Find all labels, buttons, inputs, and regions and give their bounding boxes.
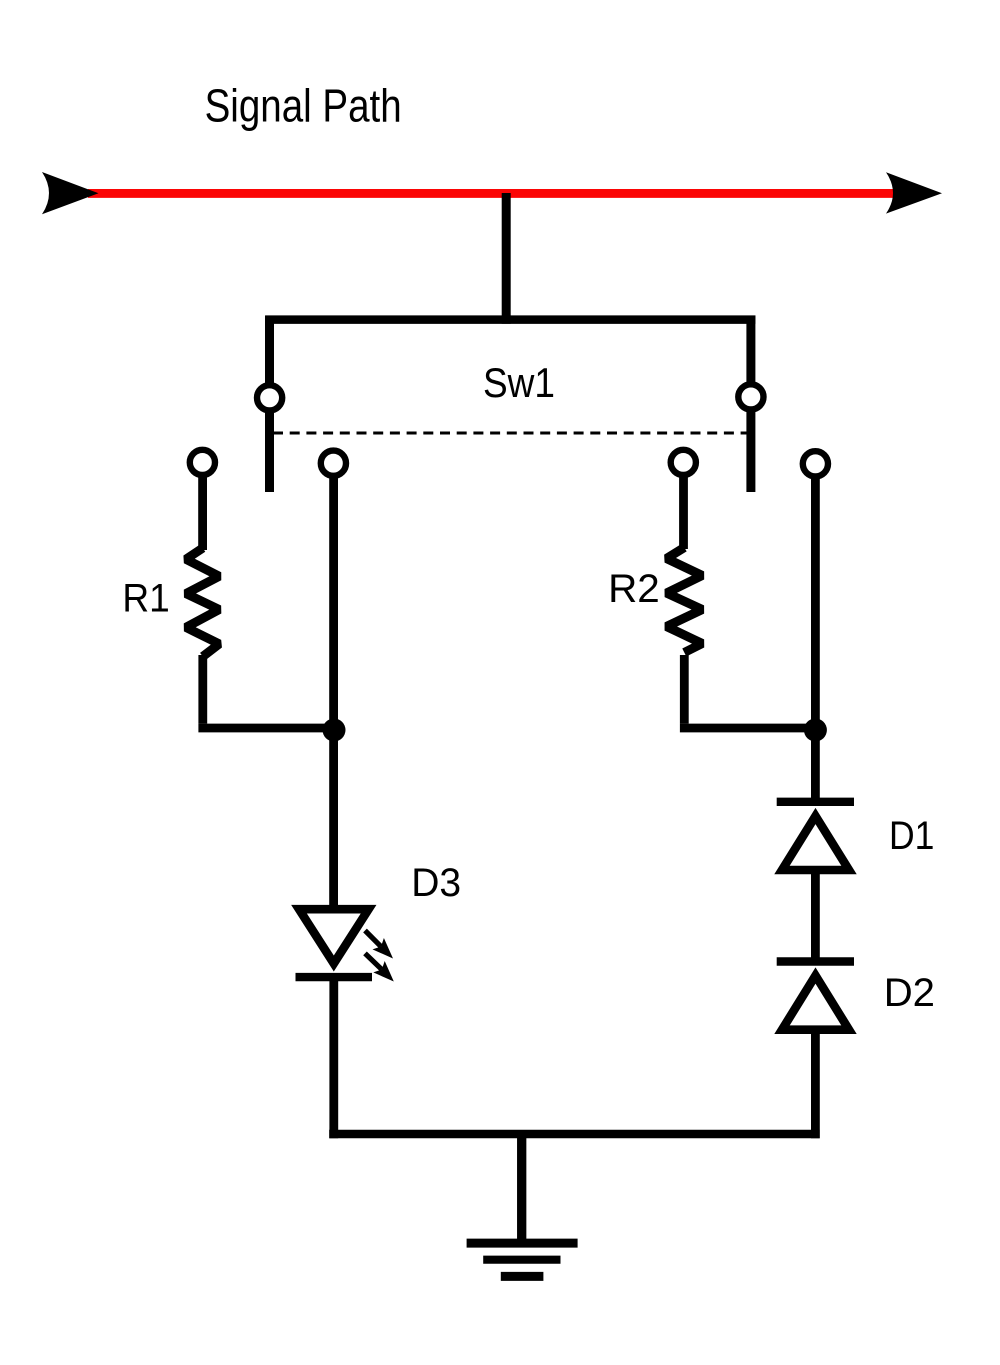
node A junction dot: [323, 719, 346, 742]
wire D2 bottom lead: [811, 1030, 820, 1139]
resistor R1: [186, 548, 219, 657]
svg-text:D2: D2: [884, 971, 935, 1015]
switch throw terminal circle right-inner: [803, 451, 828, 476]
wire left branch vertical (throw to LED): [329, 478, 338, 914]
switch right pole contact circle: [738, 384, 763, 409]
svg-text:Sw1: Sw1: [483, 360, 555, 407]
node left arrowhead: [42, 172, 99, 214]
wire R1 top lead: [198, 478, 207, 551]
LED D3 triangle: [299, 909, 369, 963]
diode D1 cathode bar: [777, 798, 854, 806]
node right arrowhead: [886, 172, 942, 213]
wire R2 bottom horizontal to node B: [680, 724, 816, 733]
ground: [467, 1243, 578, 1276]
switch Sw1 top bar: [265, 315, 755, 324]
switch right blade: [746, 412, 755, 492]
diode D2 cathode bar: [777, 957, 854, 965]
svg-text:D3: D3: [411, 860, 461, 905]
resistor R1 label: [122, 576, 169, 621]
wire LED D3 bottom lead: [329, 977, 338, 1138]
diode D1 triangle: [782, 816, 849, 870]
wire R2 bottom lead: [680, 655, 689, 724]
wire R2 top lead: [679, 478, 688, 550]
LED D3 label: [411, 860, 461, 905]
wire R1 bottom lead: [198, 655, 207, 724]
switch left blade: [265, 413, 274, 493]
diode D2 triangle: [782, 976, 849, 1030]
svg-text:R2: R2: [608, 566, 660, 611]
wire right branch vertical (throw to D1): [811, 478, 820, 802]
switch left pole contact circle: [257, 385, 282, 410]
node Signal Path label: [205, 80, 402, 131]
LED D3 light arrow 1: [365, 931, 393, 959]
svg-text:D1: D1: [889, 814, 934, 858]
svg-text:Signal Path: Signal Path: [205, 80, 402, 131]
node B junction dot: [804, 719, 827, 742]
wire D1 to D2: [811, 870, 820, 962]
wire from signal path down to switch: [502, 193, 511, 324]
switch throw terminal circle above R1: [190, 450, 215, 475]
wire ground stub: [517, 1134, 526, 1243]
wire right pole stem: [746, 316, 755, 383]
resistor R2 label: [608, 566, 660, 611]
switch throw terminal circle left-inner: [321, 451, 346, 476]
svg-text:R1: R1: [122, 576, 169, 621]
LED D3 cathode bar: [296, 973, 373, 981]
switch gang dashed link: [273, 432, 747, 435]
resistor R2: [667, 548, 703, 653]
diode D2 label: [884, 971, 935, 1015]
wire signal path (red): [88, 189, 898, 198]
diode D1 label: [889, 814, 934, 858]
wire R1 bottom horizontal to node A: [198, 724, 334, 733]
wire left pole stem: [265, 316, 274, 384]
LED D3 light arrow 2: [365, 953, 394, 981]
wire bottom rail: [329, 1130, 819, 1139]
switch Sw1 label: [483, 360, 555, 407]
switch throw terminal circle above R2: [671, 450, 696, 475]
